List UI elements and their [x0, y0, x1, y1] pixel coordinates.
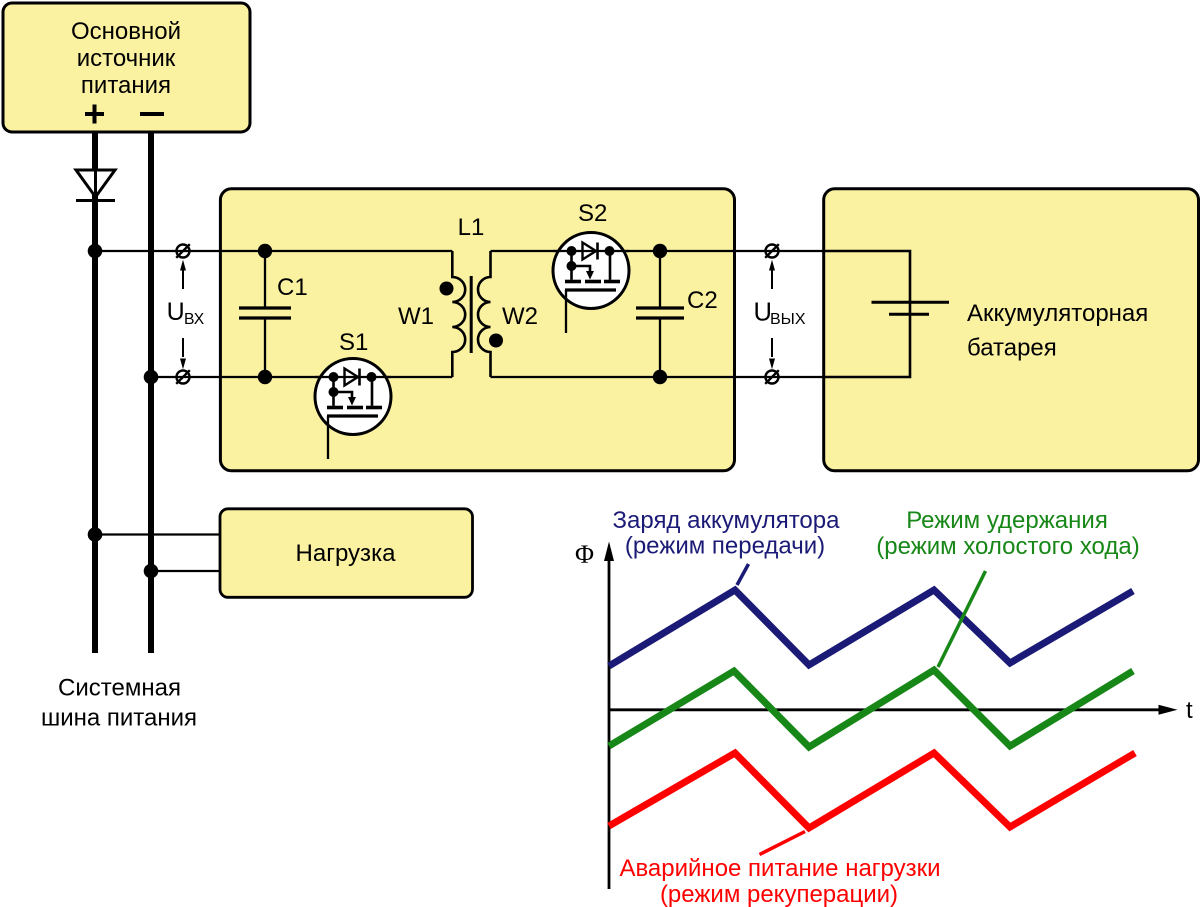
svg-text:L1: L1 [458, 214, 485, 241]
svg-text:Системная: Системная [58, 675, 181, 702]
bus positive (left vertical) [92, 132, 98, 653]
terminal output + [765, 244, 779, 258]
plus terminal label [85, 105, 104, 124]
label Uвых with dimension arrows [754, 260, 806, 369]
label Uвх with dimension arrows [167, 260, 205, 369]
svg-text:(режим холостого хода): (режим холостого хода) [876, 533, 1139, 560]
svg-text:Режим удержания: Режим удержания [906, 507, 1108, 534]
load box [220, 509, 473, 598]
wire top rail (input) [95, 250, 452, 252]
svg-text:C1: C1 [277, 274, 308, 301]
callout green [938, 571, 986, 667]
polarity dot W1 [440, 282, 454, 296]
svg-text:Аккумуляторная: Аккумуляторная [967, 300, 1148, 327]
svg-text:ВЫХ: ВЫХ [770, 311, 806, 328]
transistor S1 (MOSFET with body diode) [315, 359, 391, 460]
svg-text:источник: источник [77, 45, 176, 72]
svg-text:ВХ: ВХ [184, 311, 205, 328]
svg-text:батарея: батарея [967, 335, 1057, 362]
node C1 top [258, 244, 272, 258]
svg-text:S1: S1 [339, 329, 368, 356]
node C1 bottom [258, 370, 272, 384]
converter box [220, 189, 734, 471]
transformer L1 winding W1 [452, 251, 465, 377]
waveform red: emergency supply [609, 753, 1135, 828]
waveform blue: battery charge [609, 590, 1133, 666]
wire top rail (output) [491, 250, 910, 252]
svg-text:Нагрузка: Нагрузка [296, 540, 397, 567]
wire load - [151, 570, 221, 572]
terminal input + [176, 244, 190, 258]
svg-text:(режим передачи): (режим передачи) [625, 533, 825, 560]
svg-text:U: U [167, 298, 185, 326]
node C2 bottom [653, 370, 667, 384]
node C2 top [653, 244, 667, 258]
node: junction on + bus [88, 244, 103, 259]
transformer L1 winding W2 [478, 251, 491, 377]
svg-text:шина питания: шина питания [41, 705, 197, 732]
transformer core [470, 276, 473, 353]
battery box [824, 189, 1199, 471]
svg-text:C2: C2 [687, 287, 718, 314]
svg-text:Заряд аккумулятора: Заряд аккумулятора [613, 507, 841, 534]
svg-text:S2: S2 [578, 200, 607, 227]
wire bottom rail (input) [151, 376, 452, 378]
callout red [760, 832, 806, 855]
callout blue [737, 564, 749, 585]
polarity dot W2 [489, 334, 503, 348]
svg-text:(режим рекуперации): (режим рекуперации) [660, 881, 898, 907]
main power source box [3, 3, 250, 132]
node load + [88, 527, 103, 542]
svg-text:t: t [1186, 697, 1193, 724]
battery cell wiring [824, 251, 949, 377]
graph horizontal axis (t) [609, 708, 1160, 711]
terminal output - [765, 370, 779, 384]
svg-text:W1: W1 [398, 303, 434, 330]
transistor S2 (MOSFET with body diode) [553, 233, 629, 334]
bus negative (right vertical) [148, 132, 154, 653]
terminal input - [176, 370, 190, 384]
svg-text:Основной: Основной [71, 18, 181, 45]
capacitor C2 [636, 251, 684, 377]
svg-text:Аварийное питание нагрузки: Аварийное питание нагрузки [619, 855, 940, 882]
node load - [144, 564, 159, 579]
redraw rails over box fill [220, 251, 735, 377]
capacitor C1 [239, 251, 291, 377]
wire load + [95, 533, 221, 535]
diode VD on positive bus [76, 170, 115, 201]
node: junction on - bus [144, 370, 159, 385]
svg-text:Φ: Φ [575, 540, 594, 569]
svg-text:W2: W2 [502, 303, 538, 330]
svg-text:питания: питания [81, 72, 171, 99]
graph vertical axis (flux) [608, 557, 611, 889]
minus terminal label [140, 112, 164, 116]
waveform green: hold mode [609, 670, 1133, 747]
wire bottom rail (output) [491, 376, 910, 378]
